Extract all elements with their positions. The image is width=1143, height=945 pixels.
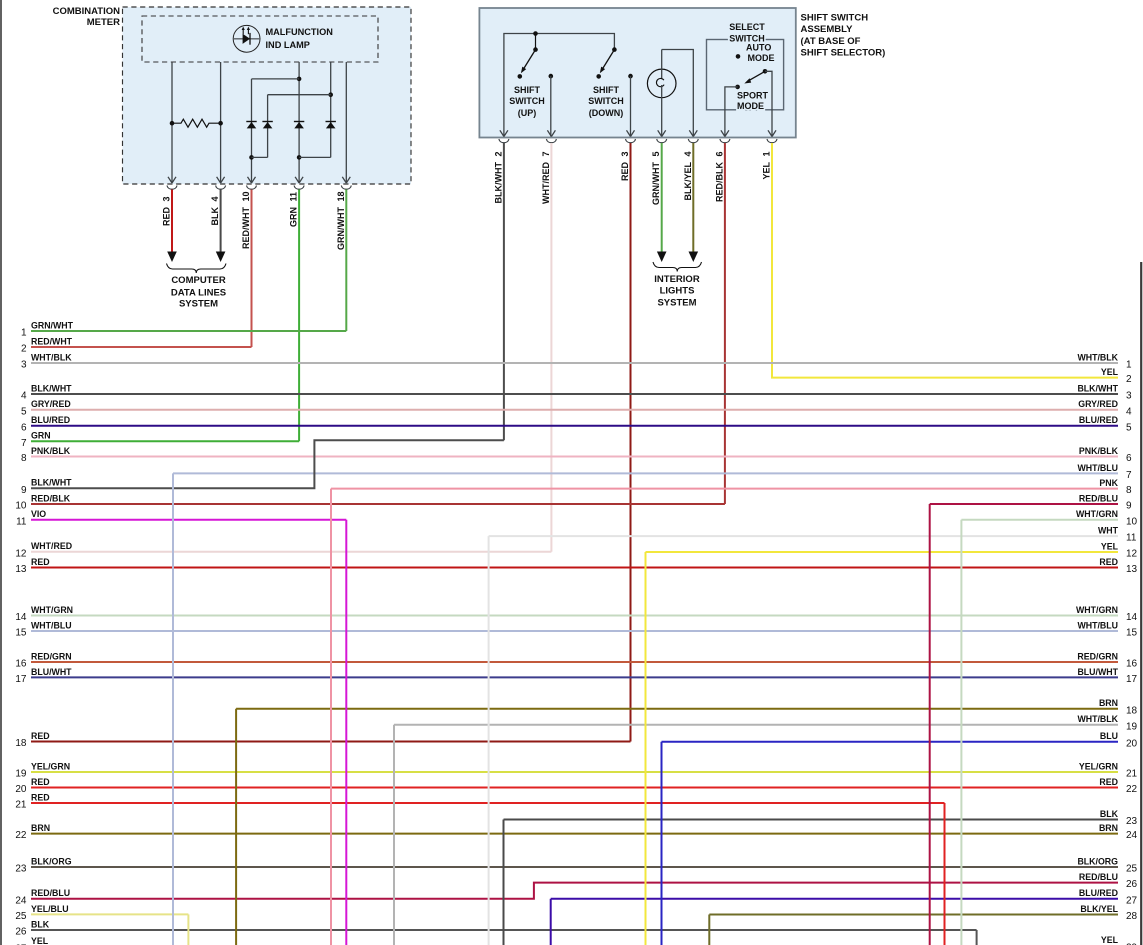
wire RED pin3 stub bbox=[167, 190, 177, 263]
svg-text:METER: METER bbox=[87, 17, 120, 28]
svg-text:16: 16 bbox=[1126, 659, 1138, 670]
svg-text:YEL/GRN: YEL/GRN bbox=[1079, 761, 1118, 771]
svg-text:7: 7 bbox=[21, 438, 27, 449]
svg-text:9: 9 bbox=[1126, 501, 1132, 512]
label GRN/WHT 5 bbox=[651, 151, 661, 205]
svg-text:WHT/BLU: WHT/BLU bbox=[31, 620, 72, 630]
shift pin arrow RED 3 bbox=[627, 130, 635, 136]
malfunction ind lamp label bbox=[266, 27, 334, 50]
svg-text:BLU/RED: BLU/RED bbox=[31, 415, 70, 425]
wire YEL/BLU vertical bbox=[187, 914, 189, 945]
svg-text:11: 11 bbox=[289, 192, 299, 202]
wire switch feed bbox=[504, 34, 615, 137]
svg-text:7: 7 bbox=[1126, 470, 1132, 481]
node R2 YEL bbox=[1101, 367, 1132, 385]
node L23 BLK/ORG bbox=[15, 856, 71, 874]
diode D4 bbox=[326, 122, 336, 129]
wire PNK/BLK row L8-R6 bbox=[31, 456, 1118, 458]
node L8 PNK/BLK bbox=[21, 446, 71, 464]
meter pin cup 3 bbox=[247, 186, 257, 190]
svg-text:17: 17 bbox=[15, 674, 27, 685]
wire RED row L20-R22 bbox=[31, 787, 1118, 789]
shift pin cup BLK/WHT 2 bbox=[499, 139, 509, 143]
wire GRN/WHT pin5 stub bbox=[657, 143, 667, 262]
meter pin arrow 5 bbox=[342, 177, 350, 183]
meter pin arrow 2 bbox=[217, 177, 225, 183]
svg-text:BLK: BLK bbox=[31, 919, 50, 929]
label BLK/YEL 4 bbox=[683, 151, 693, 200]
sport mode label bbox=[737, 91, 769, 112]
svg-text:BLK/WHT: BLK/WHT bbox=[1077, 383, 1118, 393]
node L7 GRN bbox=[21, 431, 51, 449]
wire RED/BLU row R9 bbox=[930, 503, 1118, 505]
svg-text:SYSTEM: SYSTEM bbox=[179, 299, 218, 310]
wire BRN vertical bbox=[235, 709, 237, 945]
svg-text:ASSEMBLY: ASSEMBLY bbox=[801, 24, 854, 35]
svg-text:10: 10 bbox=[1126, 516, 1138, 527]
svg-text:8: 8 bbox=[1126, 485, 1132, 496]
auto mode contact bbox=[736, 54, 741, 59]
svg-text:BRN: BRN bbox=[1099, 698, 1118, 708]
wire RED/WHT row L2 bbox=[31, 346, 252, 348]
svg-text:BLK/WHT: BLK/WHT bbox=[31, 383, 72, 393]
diode D3 bbox=[294, 122, 304, 129]
svg-text:23: 23 bbox=[1126, 816, 1138, 827]
svg-text:19: 19 bbox=[1126, 721, 1138, 732]
wire BLK/YEL pin4 stub bbox=[689, 143, 699, 262]
svg-text:3: 3 bbox=[21, 360, 27, 371]
svg-text:8: 8 bbox=[21, 453, 27, 464]
node L1 GRN/WHT bbox=[21, 320, 74, 338]
wire RED/GRN row L16-R16 bbox=[31, 661, 1118, 663]
wire meter pin11 internal (diode D3 branch) bbox=[297, 62, 302, 183]
svg-text:6: 6 bbox=[21, 422, 27, 433]
node R18 BRN bbox=[1099, 698, 1138, 716]
node R14 WHT/GRN bbox=[1076, 605, 1138, 623]
svg-text:SYSTEM: SYSTEM bbox=[657, 297, 696, 308]
svg-text:INTERIOR: INTERIOR bbox=[654, 274, 700, 285]
shift switch assembly box bbox=[479, 8, 795, 138]
wire RED row L18 bbox=[31, 741, 631, 743]
svg-text:BRN: BRN bbox=[1099, 823, 1118, 833]
node R1 WHT/BLK bbox=[1077, 352, 1132, 370]
svg-text:24: 24 bbox=[15, 895, 27, 906]
svg-text:RED/BLK: RED/BLK bbox=[31, 493, 71, 503]
svg-text:RED: RED bbox=[31, 731, 50, 741]
wire WHT/BLU row L15-R15 bbox=[31, 630, 1118, 632]
wire diode bottoms D3-D4 bbox=[299, 156, 331, 158]
node L19 YEL/GRN bbox=[15, 761, 70, 779]
svg-text:RED: RED bbox=[620, 162, 630, 182]
svg-text:GRN: GRN bbox=[31, 431, 51, 441]
meter pin cup 2 bbox=[216, 186, 226, 190]
wire meter pin3 internal bbox=[171, 62, 173, 183]
wire YEL/GRN row L19-R21 bbox=[31, 771, 1118, 773]
svg-text:1: 1 bbox=[21, 328, 27, 339]
svg-text:YEL: YEL bbox=[1101, 935, 1119, 945]
svg-text:RED/GRN: RED/GRN bbox=[1077, 651, 1118, 661]
node R10 WHT/GRN bbox=[1076, 509, 1138, 527]
wire WHT/BLK vertical bbox=[393, 725, 395, 945]
svg-text:18: 18 bbox=[336, 191, 346, 201]
svg-text:22: 22 bbox=[1126, 784, 1138, 795]
svg-text:2: 2 bbox=[493, 151, 503, 156]
wire meter pin4 internal bbox=[220, 62, 222, 183]
wire BLK vertical 2 bbox=[976, 930, 978, 945]
svg-text:3: 3 bbox=[162, 196, 172, 201]
svg-text:WHT/RED: WHT/RED bbox=[31, 541, 72, 551]
label RED 3 bbox=[162, 196, 172, 226]
meter pin cup 5 bbox=[341, 186, 351, 190]
wire GRN row L7 bbox=[31, 440, 299, 442]
wire BLK/YEL row R28 bbox=[709, 914, 1118, 916]
svg-text:5: 5 bbox=[1126, 422, 1132, 433]
label BLK 4 bbox=[210, 196, 220, 225]
svg-text:WHT/BLK: WHT/BLK bbox=[1077, 352, 1118, 362]
label WHT/RED 7 bbox=[541, 151, 551, 204]
svg-text:28: 28 bbox=[1126, 911, 1138, 922]
node L26 BLK bbox=[15, 919, 49, 937]
shift pin cup GRN/WHT 5 bbox=[657, 139, 667, 143]
svg-text:BLK: BLK bbox=[210, 207, 220, 226]
node R21 YEL/GRN bbox=[1079, 761, 1138, 779]
node L24 RED/BLU bbox=[15, 888, 70, 906]
svg-text:11: 11 bbox=[16, 516, 27, 527]
node R6 PNK/BLK bbox=[1079, 446, 1132, 464]
wire PNK vertical bbox=[330, 489, 332, 945]
svg-text:MALFUNCTION: MALFUNCTION bbox=[266, 27, 334, 37]
svg-text:6: 6 bbox=[1126, 453, 1132, 464]
wire BLU/RED vertical bbox=[550, 899, 552, 945]
svg-text:RED: RED bbox=[162, 207, 172, 227]
svg-text:12: 12 bbox=[1126, 549, 1138, 560]
node L4 BLK/WHT bbox=[21, 383, 72, 401]
svg-text:27: 27 bbox=[1126, 895, 1138, 906]
svg-text:20: 20 bbox=[15, 784, 27, 795]
wire diode D1 branch bbox=[249, 79, 299, 183]
svg-text:1: 1 bbox=[1126, 360, 1132, 371]
node L18 RED bbox=[15, 731, 49, 749]
svg-text:COMBINATION: COMBINATION bbox=[53, 6, 121, 17]
shift pin arrow BLK/WHT 2 bbox=[500, 130, 508, 136]
wire BLK row L26 bbox=[31, 929, 977, 931]
svg-text:RED/BLU: RED/BLU bbox=[1079, 872, 1118, 882]
node R3 BLK/WHT bbox=[1077, 383, 1132, 401]
svg-text:21: 21 bbox=[15, 800, 27, 811]
svg-text:7: 7 bbox=[541, 151, 551, 156]
node R16 RED/GRN bbox=[1077, 651, 1137, 669]
wire meter diode D4 branch bbox=[328, 62, 333, 157]
svg-text:BLU/RED: BLU/RED bbox=[1079, 888, 1118, 898]
wire RED row L13-R13 bbox=[31, 567, 1118, 569]
node R27 BLU/RED bbox=[1079, 888, 1138, 906]
svg-text:WHT/BLK: WHT/BLK bbox=[31, 352, 72, 362]
wire WHT/BLK row L3-R1 bbox=[31, 362, 1118, 364]
svg-text:13: 13 bbox=[15, 564, 27, 575]
brace computer data lines bbox=[167, 264, 227, 274]
node L11 VIO bbox=[16, 509, 46, 527]
wire BLU row R20 bbox=[662, 741, 1119, 743]
shift pin arrow WHT/RED 7 bbox=[547, 130, 555, 136]
svg-text:YEL/GRN: YEL/GRN bbox=[31, 761, 70, 771]
select switch SW3 bbox=[725, 69, 772, 136]
svg-text:RED: RED bbox=[31, 792, 50, 802]
svg-text:SHIFT SWITCH: SHIFT SWITCH bbox=[801, 13, 869, 24]
meter pin cup 1 bbox=[167, 186, 177, 190]
svg-text:GRN/WHT: GRN/WHT bbox=[651, 162, 661, 205]
svg-text:RED/GRN: RED/GRN bbox=[31, 651, 72, 661]
node R19 WHT/BLK bbox=[1077, 714, 1137, 732]
svg-text:BLU/WHT: BLU/WHT bbox=[31, 667, 72, 677]
wire RED/BLU vertical bbox=[929, 504, 931, 945]
svg-text:BRN: BRN bbox=[31, 823, 50, 833]
svg-text:GRN: GRN bbox=[289, 207, 299, 227]
wire BLK/WHT row L4-R3 bbox=[31, 393, 1118, 395]
wire GRN/WHT pin18 vertical bbox=[345, 190, 347, 332]
svg-text:25: 25 bbox=[1126, 864, 1138, 875]
wire BLU/RED row L6-R5 bbox=[31, 425, 1118, 427]
svg-text:15: 15 bbox=[1126, 628, 1138, 639]
svg-text:2: 2 bbox=[1126, 374, 1132, 385]
svg-text:BLU/WHT: BLU/WHT bbox=[1077, 667, 1118, 677]
svg-text:BLK/YEL: BLK/YEL bbox=[1080, 904, 1118, 914]
svg-text:2: 2 bbox=[21, 344, 27, 355]
node R11 WHT bbox=[1098, 526, 1137, 544]
node L27 YEL bbox=[15, 936, 48, 945]
svg-text:BLK/WHT: BLK/WHT bbox=[31, 478, 72, 488]
svg-text:RED: RED bbox=[31, 557, 50, 567]
node R28 BLK/YEL bbox=[1080, 904, 1137, 922]
svg-text:18: 18 bbox=[1126, 705, 1138, 716]
shift pin cup BLK/YEL 4 bbox=[688, 139, 698, 143]
label GRN/WHT 18 bbox=[336, 191, 346, 250]
wire BLU/WHT row L17-R17 bbox=[31, 676, 1118, 678]
svg-text:IND LAMP: IND LAMP bbox=[266, 40, 310, 50]
svg-text:19: 19 bbox=[15, 769, 27, 780]
node L3 WHT/BLK bbox=[21, 352, 72, 370]
svg-text:WHT/RED: WHT/RED bbox=[541, 162, 551, 204]
wire BRN row L22-R24 bbox=[31, 833, 1118, 835]
node L13 RED bbox=[15, 557, 49, 575]
shift pin arrow BLK/YEL 4 bbox=[689, 130, 697, 136]
svg-text:YEL: YEL bbox=[762, 162, 772, 180]
svg-text:4: 4 bbox=[683, 151, 693, 156]
svg-text:25: 25 bbox=[15, 911, 27, 922]
meter pin arrow 3 bbox=[248, 177, 256, 183]
node L2 RED/WHT bbox=[21, 336, 73, 354]
svg-text:YEL: YEL bbox=[31, 936, 49, 945]
svg-text:5: 5 bbox=[21, 406, 27, 417]
node L17 BLU/WHT bbox=[15, 667, 72, 685]
svg-text:5: 5 bbox=[651, 151, 661, 156]
meter pin arrow 4 bbox=[295, 177, 303, 183]
node R17 BLU/WHT bbox=[1077, 667, 1137, 685]
svg-text:(AT BASE OF: (AT BASE OF bbox=[801, 36, 861, 47]
node L22 BRN bbox=[15, 823, 50, 841]
label BLK/WHT 2 bbox=[493, 151, 503, 203]
wire RED/BLU row L24-R26 path bbox=[31, 883, 1118, 899]
svg-text:GRN/WHT: GRN/WHT bbox=[336, 207, 346, 250]
shift switch (UP) SW1 bbox=[518, 31, 554, 136]
svg-text:GRN/WHT: GRN/WHT bbox=[31, 320, 74, 330]
svg-text:24: 24 bbox=[1126, 830, 1138, 841]
svg-text:RED/WHT: RED/WHT bbox=[241, 207, 251, 249]
wire WHT/RED pin7 vertical bbox=[550, 143, 552, 552]
interior lights system label bbox=[654, 274, 700, 308]
wire WHT/GRN row L14-R14 bbox=[31, 615, 1118, 617]
label RED 3 bbox=[620, 151, 630, 181]
svg-text:RED: RED bbox=[1099, 777, 1118, 787]
wire BLK pin4 stub bbox=[216, 190, 226, 263]
wire RED row L21 bbox=[31, 802, 945, 804]
svg-text:RED: RED bbox=[31, 777, 50, 787]
left page border bbox=[0, 0, 2, 945]
svg-text:11: 11 bbox=[1126, 533, 1137, 544]
wire BLK/YEL vertical bbox=[708, 915, 710, 945]
svg-text:(UP): (UP) bbox=[518, 108, 537, 118]
node R15 WHT/BLU bbox=[1077, 620, 1137, 638]
svg-text:PNK: PNK bbox=[1099, 478, 1118, 488]
malfunction indicator LED bbox=[233, 25, 260, 52]
svg-text:SWITCH: SWITCH bbox=[509, 96, 545, 106]
svg-text:4: 4 bbox=[1126, 406, 1132, 417]
svg-text:22: 22 bbox=[15, 830, 27, 841]
node L10 RED/BLK bbox=[15, 493, 70, 511]
resistor R (meter) bbox=[170, 119, 223, 127]
svg-text:9: 9 bbox=[21, 485, 27, 496]
label YEL 1 bbox=[762, 151, 772, 179]
right page border bbox=[1140, 262, 1142, 945]
svg-text:AUTO: AUTO bbox=[746, 42, 771, 52]
wire BLU/RED row R27 bbox=[551, 898, 1118, 900]
svg-text:SWITCH: SWITCH bbox=[588, 96, 624, 106]
select switch label bbox=[729, 22, 765, 44]
wire YEL pin1 vertical bbox=[771, 143, 773, 378]
svg-text:4: 4 bbox=[210, 196, 220, 201]
diode D1 bbox=[246, 122, 256, 129]
node L9 BLK/WHT bbox=[21, 478, 72, 496]
svg-text:WHT/GRN: WHT/GRN bbox=[1076, 509, 1118, 519]
shift switch (UP) label bbox=[509, 85, 545, 118]
svg-text:10: 10 bbox=[241, 191, 251, 201]
wire WHT/BLU row R7 bbox=[173, 472, 1118, 474]
wire meter pin18 internal bbox=[345, 62, 347, 183]
wire GRY/RED row L5-R4 bbox=[31, 409, 1118, 411]
svg-text:WHT: WHT bbox=[1098, 526, 1119, 536]
label RED/WHT 10 bbox=[241, 191, 251, 249]
shift pin cup RED 3 bbox=[626, 139, 636, 143]
wire BLU vertical bbox=[661, 742, 663, 945]
svg-text:20: 20 bbox=[1126, 738, 1138, 749]
wire BLK/WHT row L9 path bbox=[31, 440, 504, 488]
svg-text:RED/BLK: RED/BLK bbox=[714, 162, 724, 202]
svg-text:MODE: MODE bbox=[748, 53, 775, 63]
svg-text:13: 13 bbox=[1126, 564, 1138, 575]
wire WHT/GRN vertical bbox=[960, 520, 962, 945]
svg-text:1: 1 bbox=[762, 151, 772, 156]
wire VIO row L11 bbox=[31, 519, 346, 521]
wire WHT/BLK row R19 bbox=[394, 724, 1118, 726]
svg-text:GRY/RED: GRY/RED bbox=[1078, 399, 1118, 409]
node L12 WHT/RED bbox=[15, 541, 72, 559]
svg-text:YEL: YEL bbox=[1101, 541, 1119, 551]
svg-text:(DOWN): (DOWN) bbox=[589, 108, 624, 118]
wire YEL row R12 bbox=[646, 551, 1119, 553]
label GRN 11 bbox=[289, 192, 299, 227]
wire WHT/BLU vertical bbox=[172, 473, 174, 945]
svg-text:SHIFT: SHIFT bbox=[593, 85, 620, 95]
svg-text:LIGHTS: LIGHTS bbox=[660, 285, 695, 296]
wire RED pin3 vertical bbox=[630, 143, 632, 742]
svg-text:17: 17 bbox=[1126, 674, 1138, 685]
svg-text:WHT/GRN: WHT/GRN bbox=[1076, 605, 1118, 615]
wire WHT/RED row L12 bbox=[31, 551, 551, 553]
wire RED/BLK row L10 bbox=[31, 503, 725, 505]
svg-text:RED/BLU: RED/BLU bbox=[31, 888, 70, 898]
wire BLK row R23 bbox=[504, 819, 1119, 821]
node R8 PNK bbox=[1099, 478, 1132, 496]
svg-text:WHT/BLU: WHT/BLU bbox=[1077, 620, 1118, 630]
svg-text:SPORT: SPORT bbox=[737, 91, 769, 101]
svg-text:BLK/ORG: BLK/ORG bbox=[1077, 856, 1118, 866]
svg-text:26: 26 bbox=[1126, 879, 1138, 890]
node L16 RED/GRN bbox=[15, 651, 71, 669]
node R24 BRN bbox=[1099, 823, 1138, 841]
svg-text:14: 14 bbox=[15, 612, 27, 623]
svg-text:6: 6 bbox=[714, 151, 724, 156]
node R25 BLK/ORG bbox=[1077, 856, 1137, 874]
node L21 RED bbox=[15, 792, 49, 810]
node L6 BLU/RED bbox=[21, 415, 70, 433]
wire WHT row R11 bbox=[489, 535, 1118, 537]
svg-text:BLK/YEL: BLK/YEL bbox=[683, 162, 693, 201]
svg-text:BLU/RED: BLU/RED bbox=[1079, 415, 1118, 425]
wire YEL row R2 bbox=[771, 377, 1118, 379]
svg-text:26: 26 bbox=[15, 927, 27, 938]
wire VIO vertical bbox=[345, 520, 347, 945]
wire RED vertical bbox=[944, 803, 946, 945]
svg-text:WHT/BLK: WHT/BLK bbox=[1077, 714, 1118, 724]
wire GRN/WHT row L1 bbox=[31, 330, 346, 332]
wire YEL/BLU row L25 bbox=[31, 913, 188, 915]
combination meter label bbox=[53, 6, 121, 28]
svg-text:GRY/RED: GRY/RED bbox=[31, 399, 71, 409]
svg-text:3: 3 bbox=[620, 151, 630, 156]
shift pin cup RED/BLK 6 bbox=[720, 139, 730, 143]
wire RED/BLK pin6 vertical bbox=[724, 143, 726, 504]
svg-text:PNK/BLK: PNK/BLK bbox=[31, 446, 71, 456]
shift pin arrow YEL 1 bbox=[768, 130, 776, 136]
svg-text:PNK/BLK: PNK/BLK bbox=[1079, 446, 1119, 456]
node L5 GRY/RED bbox=[21, 399, 71, 417]
svg-text:SHIFT: SHIFT bbox=[514, 85, 541, 95]
svg-text:15: 15 bbox=[15, 628, 27, 639]
shift pin arrow RED/BLK 6 bbox=[721, 130, 729, 136]
select switch box bbox=[707, 40, 784, 110]
wire RED/WHT pin10 vertical bbox=[251, 190, 253, 348]
node R23 BLK bbox=[1100, 809, 1138, 827]
wire BLK/ORG row L23-R25 bbox=[31, 866, 1118, 868]
diode D2 bbox=[262, 122, 272, 129]
svg-text:SHIFT SELECTOR): SHIFT SELECTOR) bbox=[801, 48, 886, 59]
wire diode D2 branch bbox=[252, 95, 331, 158]
svg-text:23: 23 bbox=[15, 864, 27, 875]
shift switch (DOWN) label bbox=[588, 85, 624, 118]
svg-text:VIO: VIO bbox=[31, 509, 46, 519]
computer data lines system label bbox=[171, 275, 226, 310]
svg-text:BLU: BLU bbox=[1100, 731, 1118, 741]
svg-text:WHT/BLU: WHT/BLU bbox=[1077, 463, 1118, 473]
